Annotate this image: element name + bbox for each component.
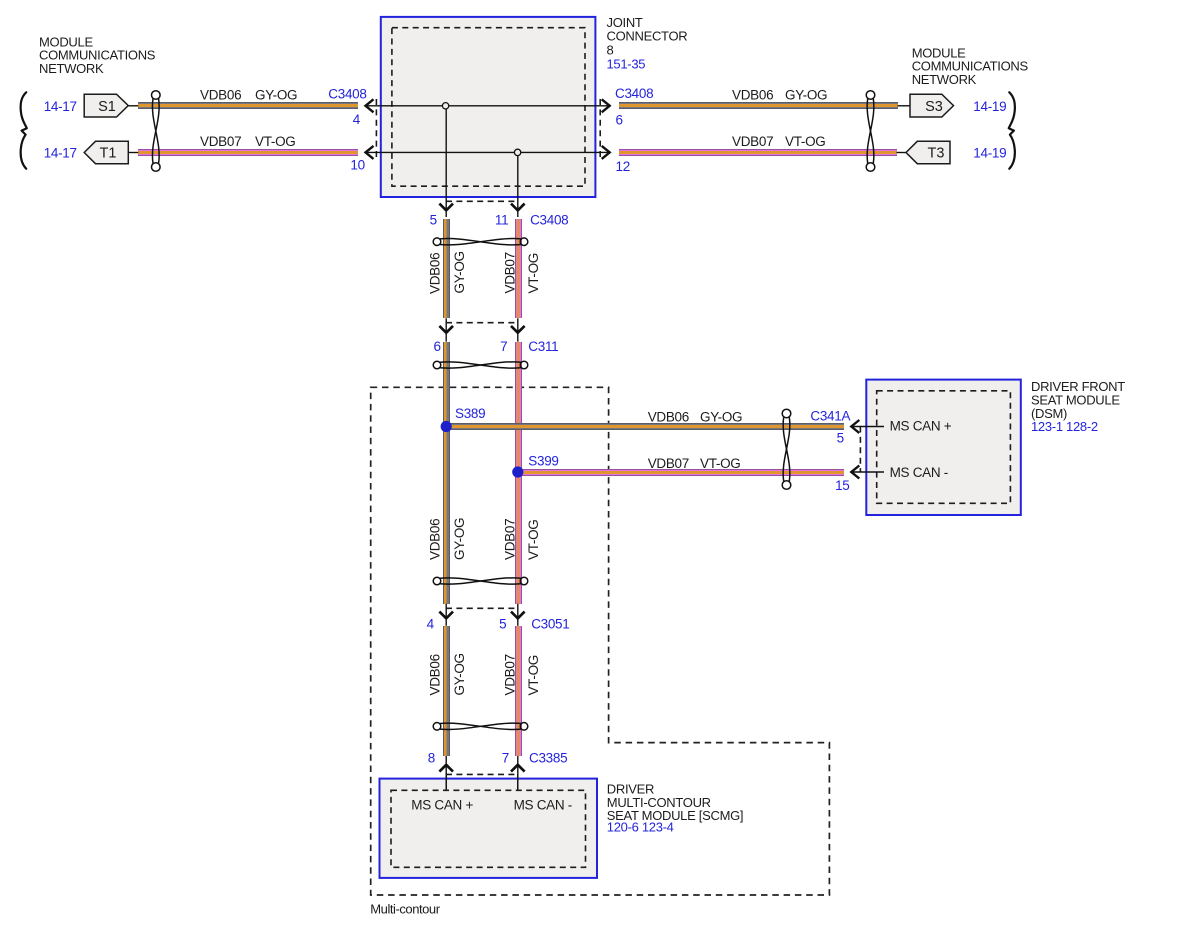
connector C311 pin 7 pass-through line and arrow — [517, 318, 519, 341]
svg-text:GY-OG: GY-OG — [255, 88, 297, 103]
svg-text:VDB06: VDB06 — [428, 253, 443, 294]
twisted pair symbol (right pair) — [866, 91, 875, 172]
svg-text:7: 7 — [500, 339, 507, 354]
svg-text:14-19: 14-19 — [973, 146, 1006, 161]
pin 11 arrow (down) — [511, 204, 525, 211]
T1 terminal lead — [128, 152, 138, 154]
net label: module communications network (right) — [912, 45, 1029, 87]
svg-text:8: 8 — [428, 751, 435, 766]
net label: module communications network (left) — [39, 34, 156, 76]
connector C311 pin 6 pass-through line and arrow — [445, 318, 447, 341]
svg-text:11: 11 — [495, 213, 508, 228]
svg-text:NETWORK: NETWORK — [39, 61, 104, 76]
drop wire from node B to pin 11 — [517, 152, 519, 217]
svg-text:C341A: C341A — [810, 409, 850, 424]
svg-text:VT-OG: VT-OG — [526, 655, 541, 696]
splice S389 — [441, 421, 452, 432]
wire VDB06 vertical C311 to C3051 pin 4 — [443, 342, 450, 604]
svg-text:C3051: C3051 — [531, 617, 569, 632]
svg-text:T1: T1 — [100, 146, 117, 162]
svg-text:S389: S389 — [455, 406, 485, 421]
wire VDB06 vertical C3051 to C3385 pin 8 — [443, 626, 450, 756]
svg-text:4: 4 — [353, 112, 361, 127]
svg-text:VT-OG: VT-OG — [526, 519, 541, 560]
svg-text:VDB07: VDB07 — [503, 519, 518, 560]
svg-text:S399: S399 — [528, 454, 558, 469]
wire VDB07 VT-OG from splice S399 to C341A pin 15 — [518, 469, 844, 476]
svg-text:C3385: C3385 — [529, 751, 567, 766]
svg-text:6: 6 — [433, 339, 440, 354]
splice S399 — [512, 466, 523, 477]
S1 terminal lead — [128, 105, 138, 107]
internal bus line 2 inside joint connector — [366, 151, 610, 153]
multi-contour harness boundary (dashed) — [371, 387, 830, 895]
svg-text:C3408: C3408 — [328, 87, 366, 102]
connector C341A pin stub (dashed) — [859, 427, 861, 473]
svg-text:VT-OG: VT-OG — [700, 456, 741, 471]
connector C3408 bottom pin stub (dashed) — [446, 200, 518, 202]
svg-text:12: 12 — [616, 159, 630, 174]
svg-text:VDB06: VDB06 — [428, 654, 443, 695]
connector C3408 right pin stub (dashed) — [599, 99, 601, 159]
svg-text:VDB07: VDB07 — [648, 456, 689, 471]
terminal S1 — [84, 94, 128, 117]
svg-text:MS CAN -: MS CAN - — [890, 465, 948, 480]
wire VDB06 GY-OG from C3408 pin 6 to S3 — [619, 102, 898, 109]
twisted pair symbol (vertical run, above C3385) — [433, 723, 528, 731]
svg-text:120-6 123-4: 120-6 123-4 — [607, 820, 674, 835]
wire VDB06 GY-OG from S1 to C3408 pin 4 — [138, 102, 358, 109]
svg-text:151-35: 151-35 — [607, 56, 646, 71]
driver front seat module DSM box — [866, 380, 1021, 515]
svg-text:VDB07: VDB07 — [200, 134, 241, 149]
svg-text:MS CAN +: MS CAN + — [890, 419, 952, 434]
svg-text:VDB06: VDB06 — [648, 410, 689, 425]
svg-text:14-17: 14-17 — [44, 99, 77, 114]
node B junction circle — [514, 149, 520, 155]
svg-text:14-17: 14-17 — [44, 146, 77, 161]
pin 5 arrow (down) — [439, 204, 453, 211]
svg-text:NETWORK: NETWORK — [912, 72, 977, 87]
pin 12 arrow (right, out) — [602, 146, 610, 159]
svg-text:GY-OG: GY-OG — [785, 88, 827, 103]
svg-text:8: 8 — [607, 43, 614, 58]
left network brace — [21, 92, 27, 168]
svg-text:5: 5 — [499, 617, 506, 632]
wire VDB07 vertical C311 to C3051 pin 5 — [515, 342, 522, 604]
svg-text:VDB06: VDB06 — [200, 88, 241, 103]
internal bus line 1 inside joint connector — [366, 105, 610, 107]
svg-text:C3408: C3408 — [615, 86, 653, 101]
right network brace — [1009, 92, 1015, 168]
wire VDB07 VT-OG from T1 to C3408 pin 10 — [138, 149, 358, 156]
svg-text:VDB07: VDB07 — [503, 252, 518, 293]
connector C3385 (dashed) — [446, 773, 518, 775]
pin 10 arrow (left, out) — [366, 146, 374, 159]
svg-text:Multi-contour: Multi-contour — [370, 902, 440, 917]
wire VDB06 vertical C3408 pin5 to C311 pin6 — [443, 219, 450, 318]
component label: driver multi-contour seat module [SCMG] — [607, 781, 743, 834]
terminal T3 — [906, 141, 950, 163]
twisted pair symbol (vertical run, above C3051... below splices) — [433, 577, 528, 585]
connector C3051 pin 4 pass-through line and arrow — [445, 604, 447, 626]
node A junction circle — [442, 103, 448, 109]
SCMG pin 8 internal lead — [445, 774, 447, 789]
svg-text:5: 5 — [430, 213, 437, 228]
svg-text:S1: S1 — [98, 99, 116, 115]
twisted pair symbol (left pair) — [152, 91, 161, 172]
svg-text:VT-OG: VT-OG — [785, 134, 826, 149]
connector C3385 pin 8 lead line and arrow (up) — [445, 756, 447, 789]
svg-text:15: 15 — [835, 478, 849, 493]
connector C3385 pin 7 lead line and arrow (up) — [517, 756, 519, 789]
svg-text:GY-OG: GY-OG — [452, 518, 467, 560]
terminal S3 — [910, 94, 954, 117]
wire VDB07 VT-OG from C3408 pin 12 to T3 — [619, 149, 897, 156]
pin 6 arrow (right, out) — [602, 99, 610, 112]
drop wire from node A to pin 5 — [445, 106, 447, 217]
pin 4 arrow (left, out) — [366, 99, 374, 112]
SCMG pin 7 internal lead — [517, 774, 519, 789]
svg-text:GY-OG: GY-OG — [452, 251, 467, 293]
svg-text:10: 10 — [350, 158, 364, 173]
svg-text:VDB06: VDB06 — [732, 88, 773, 103]
svg-text:VDB07: VDB07 — [732, 134, 773, 149]
svg-text:14-19: 14-19 — [973, 99, 1006, 114]
wire VDB07 vertical C3051 to C3385 pin 7 — [515, 626, 522, 756]
svg-text:VT-OG: VT-OG — [255, 134, 296, 149]
connector C341A pin 5 lead line and arrow — [851, 426, 884, 428]
S3 terminal lead — [898, 105, 911, 107]
connector C311 (dashed) — [446, 322, 518, 324]
component label: driver front seat module (DSM) — [1031, 379, 1125, 434]
connector C3051 (dashed) — [446, 607, 518, 609]
wire VDB07 vertical C3408 pin11 to C311 pin7 — [515, 219, 522, 318]
joint connector U1 box — [381, 17, 596, 197]
svg-text:123-1 128-2: 123-1 128-2 — [1031, 419, 1098, 434]
svg-text:GY-OG: GY-OG — [700, 410, 742, 425]
svg-text:VT-OG: VT-OG — [526, 253, 541, 294]
svg-text:GY-OG: GY-OG — [452, 653, 467, 695]
svg-text:JOINT: JOINT — [607, 15, 643, 30]
terminal T1 — [84, 141, 128, 163]
svg-text:C3408: C3408 — [530, 213, 568, 228]
svg-text:MS CAN -: MS CAN - — [514, 798, 572, 813]
wire VDB06 GY-OG from splice S389 to C341A pin 5 — [446, 423, 844, 430]
component label: joint connector 8 / 151-35 — [607, 15, 688, 71]
connector C3408 left pin stub (dashed) — [375, 99, 377, 159]
driver multi-contour seat module SCMG box — [380, 779, 598, 878]
svg-text:T3: T3 — [928, 146, 945, 162]
svg-text:5: 5 — [837, 431, 844, 446]
T3 terminal lead — [897, 152, 907, 154]
connector C3051 pin 5 pass-through line and arrow — [517, 604, 519, 626]
twisted pair symbol (vertical run, below C3408) — [433, 238, 528, 246]
twisted pair symbol (vertical run, below C311) — [433, 361, 528, 369]
svg-text:7: 7 — [502, 751, 509, 766]
twisted pair symbol (DSM pair) — [782, 409, 791, 489]
svg-text:4: 4 — [427, 617, 435, 632]
svg-text:VDB06: VDB06 — [428, 519, 443, 560]
svg-text:MS CAN +: MS CAN + — [411, 798, 473, 813]
svg-text:S3: S3 — [925, 99, 943, 115]
connector C341A pin 15 lead line and arrow — [851, 471, 884, 473]
svg-text:VDB07: VDB07 — [503, 654, 518, 695]
svg-text:C311: C311 — [528, 339, 558, 354]
svg-text:CONNECTOR: CONNECTOR — [607, 29, 688, 44]
svg-text:6: 6 — [616, 113, 623, 128]
